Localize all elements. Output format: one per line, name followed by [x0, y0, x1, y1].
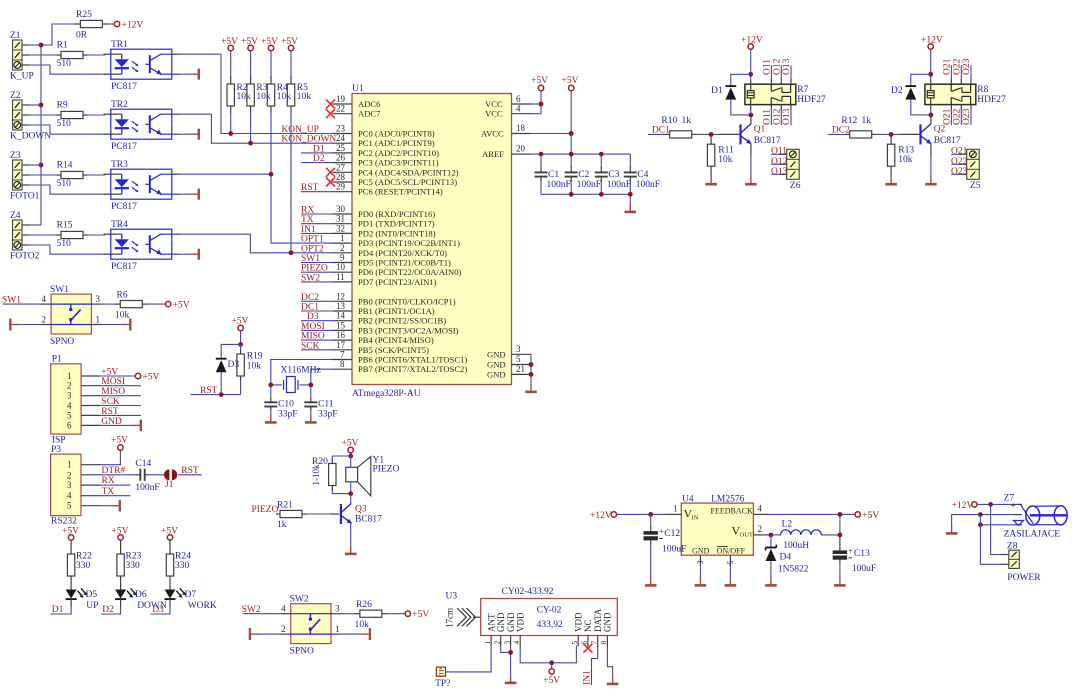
pin 17 PB5 net SCK [301, 340, 429, 355]
resistor R3 [247, 51, 254, 144]
svg-text:0R: 0R [76, 31, 88, 41]
wire R15 to TR4 [87, 233, 111, 236]
wire P3 pin3 RX [81, 476, 131, 486]
svg-text:K_DOWN: K_DOWN [10, 132, 51, 142]
wire C3 drop [600, 154, 602, 168]
svg-text:R14: R14 [57, 161, 73, 171]
node relay1 bottom [749, 113, 754, 118]
svg-text:OPT2: OPT2 [301, 244, 324, 254]
pin 7 PB6 [333, 350, 468, 365]
pin 1 PD3 net OPT1 [301, 233, 460, 248]
node relay2 bottom [929, 113, 934, 118]
svg-text:BC817: BC817 [355, 515, 382, 525]
svg-text:O12: O12 [771, 157, 788, 167]
svg-text:O11: O11 [763, 109, 773, 125]
svg-text:+5V: +5V [101, 368, 118, 378]
net KON_DOWN [281, 135, 336, 145]
+5V terminal R26 [405, 610, 429, 620]
svg-text:X116MHz: X116MHz [281, 366, 321, 376]
svg-text:Z3: Z3 [10, 151, 21, 161]
resistor R13 [887, 134, 914, 177]
svg-text:3: 3 [696, 561, 705, 565]
svg-text:510: 510 [57, 59, 72, 69]
LED column D7 [151, 527, 217, 616]
capacitor C12 [644, 514, 665, 578]
svg-text:RST: RST [181, 466, 199, 476]
wire Z7 pin2 to gnd [952, 512, 1014, 526]
svg-text:330: 330 [76, 561, 91, 571]
svg-text:O11: O11 [763, 59, 773, 75]
svg-text:2: 2 [493, 641, 502, 645]
svg-text:OPT1: OPT1 [301, 235, 324, 245]
pin 19 ADC6 [326, 94, 381, 109]
op-amp U1 body [352, 84, 512, 399]
svg-text:R24: R24 [175, 552, 191, 562]
antenna [445, 608, 481, 628]
svg-text:PD5 (PCINT21/OC0B/T1): PD5 (PCINT21/OC0B/T1) [358, 258, 451, 268]
wire U3 pin8 gnd [607, 645, 612, 676]
net KON_UP [281, 125, 318, 135]
svg-text:9: 9 [340, 253, 345, 263]
wire R1 to TR1 [87, 53, 111, 56]
svg-text:D3: D3 [228, 360, 240, 370]
svg-text:11: 11 [336, 272, 345, 282]
wire U3 vdd pins [520, 645, 576, 665]
node relay2 top [928, 72, 933, 77]
wire P1 pin1 +5V [81, 368, 135, 378]
svg-text:ADC6: ADC6 [358, 99, 381, 109]
svg-text:1: 1 [335, 624, 340, 634]
pin 5 GND [487, 354, 531, 370]
svg-text:R26: R26 [356, 600, 372, 610]
node L2 out [838, 512, 843, 537]
svg-text:3: 3 [67, 391, 72, 401]
svg-text:C2: C2 [578, 170, 589, 180]
ground Q2 [925, 176, 937, 184]
svg-text:RX: RX [102, 476, 115, 486]
svg-text:15: 15 [336, 320, 346, 330]
svg-text:PB3 (PCINT3/OC2A/MOSI): PB3 (PCINT3/OC2A/MOSI) [358, 325, 459, 335]
svg-text:TR1: TR1 [111, 40, 128, 50]
svg-text:D4: D4 [780, 553, 792, 563]
node piezo bottom [348, 491, 353, 496]
svg-text:SPNO: SPNO [50, 337, 74, 347]
svg-text:O22: O22 [952, 108, 962, 125]
svg-text:4: 4 [67, 401, 72, 411]
ground U1 [525, 384, 537, 392]
svg-text:R8: R8 [977, 85, 988, 95]
svg-text:25: 25 [336, 143, 346, 153]
svg-text:R13: R13 [898, 146, 914, 156]
svg-text:PB6 (PCINT6/XTAL1/TOSC1): PB6 (PCINT6/XTAL1/TOSC1) [358, 355, 467, 365]
svg-text:FOTO1: FOTO1 [10, 192, 40, 202]
svg-text:GND: GND [487, 369, 506, 379]
svg-text:HDF27: HDF27 [977, 95, 1006, 105]
ground C12 [645, 578, 657, 586]
pin 2 PD4 net OPT2 [301, 243, 447, 258]
wire P1 pin3 MISO [81, 387, 141, 397]
relay1 bottom contact wires [763, 105, 793, 125]
svg-text:O12: O12 [772, 108, 782, 125]
svg-text:PD7 (PCINT23/AIN1): PD7 (PCINT23/AIN1) [358, 277, 437, 287]
pin 16 PB4 net MISO [301, 330, 434, 345]
svg-text:SCK: SCK [101, 397, 120, 407]
ground C11 [305, 415, 317, 423]
svg-text:PC2 (ADC2/PCINT10): PC2 (ADC2/PCINT10) [358, 148, 439, 158]
ground C13 [834, 578, 846, 586]
svg-text:SW1: SW1 [50, 285, 69, 295]
+5V terminal P3 [111, 436, 128, 451]
resistor R12 [841, 116, 919, 138]
wire P1 pin2 MOSI [81, 377, 141, 387]
node OPT2 junction [289, 250, 294, 255]
relay2 bottom contact wires [943, 105, 973, 125]
wire R9 to TR2 [87, 113, 111, 116]
ground Q1 [745, 176, 757, 184]
svg-text:ZASILAJACE: ZASILAJACE [1004, 530, 1061, 540]
svg-text:433,92: 433,92 [537, 620, 563, 630]
svg-text:1: 1 [67, 460, 72, 470]
svg-text:O13: O13 [782, 108, 792, 125]
svg-text:28: 28 [336, 172, 346, 182]
svg-text:O21: O21 [951, 147, 968, 157]
+5V terminal P1 [135, 373, 159, 383]
svg-text:R7: R7 [797, 85, 808, 95]
svg-text:PIEZO: PIEZO [373, 465, 400, 475]
svg-text:R23: R23 [126, 552, 142, 562]
wire P1 pin4 SCK [81, 397, 141, 407]
pin 23 PC0 [336, 124, 435, 139]
resistor R4 [267, 51, 274, 113]
svg-text:3: 3 [516, 344, 521, 354]
svg-text:O21: O21 [943, 108, 953, 125]
svg-text:33pF: 33pF [278, 410, 298, 420]
wire cap bottom rail [541, 192, 633, 205]
svg-text:SW2: SW2 [242, 605, 261, 615]
svg-text:O23: O23 [962, 108, 972, 125]
resistor R14 [56, 161, 88, 190]
svg-text:O22: O22 [951, 157, 968, 167]
+5V terminal piezo [342, 439, 359, 457]
svg-text:PC817: PC817 [111, 202, 137, 212]
svg-text:19: 19 [336, 94, 346, 104]
pin 10 PD6 net PIEZO [301, 262, 462, 277]
svg-text:510: 510 [57, 239, 72, 249]
pin1 VIN stub [666, 504, 681, 515]
svg-text:P3: P3 [51, 445, 61, 455]
svg-text:PD2 (INT0/PCINT18): PD2 (INT0/PCINT18) [358, 228, 436, 238]
jumper J1 [148, 466, 202, 490]
test point TP? [435, 667, 450, 689]
ground SW2 right [341, 628, 370, 640]
svg-text:POWER: POWER [1007, 573, 1041, 583]
svg-text:FOTO2: FOTO2 [10, 252, 40, 262]
wire Z2 pin3 to TR2 cathode [29, 125, 111, 134]
svg-text:O13: O13 [782, 58, 792, 75]
capacitor C1 [535, 167, 571, 194]
svg-text:O22: O22 [952, 58, 962, 75]
wire C1 drop [540, 154, 542, 168]
svg-text:J1: J1 [165, 480, 174, 490]
svg-text:BC817: BC817 [934, 136, 961, 146]
crystal X1 16MHz [268, 366, 320, 393]
pin 13 PB1 net DC1 [301, 301, 435, 316]
pin 4 VCC [485, 104, 541, 119]
pin4 FEEDBACK wire [753, 504, 855, 515]
svg-text:SW2: SW2 [301, 273, 320, 283]
svg-text:GND: GND [101, 417, 122, 427]
svg-text:VCC: VCC [485, 99, 503, 109]
svg-text:IN: IN [692, 515, 699, 522]
svg-text:Z4: Z4 [10, 211, 21, 221]
connector Z5 [951, 147, 981, 191]
resistor R20 [311, 456, 351, 494]
svg-text:PD6 (PCINT22/OC0A/AIN0): PD6 (PCINT22/OC0A/AIN0) [358, 267, 462, 277]
capacitor C13 [833, 536, 876, 579]
svg-text:U4: U4 [682, 495, 694, 505]
svg-text:3: 3 [335, 604, 340, 614]
ground Q3 [345, 546, 357, 554]
ground R13 [885, 176, 897, 184]
ground Z7 [946, 526, 958, 534]
+5V terminal R4 [261, 37, 278, 51]
U3 pin stubs [483, 636, 608, 647]
ground U3 [505, 675, 517, 683]
+5V terminal R2 [221, 37, 238, 51]
svg-text:+5V: +5V [531, 76, 548, 86]
wire U3 pin2 gnd jog [501, 645, 511, 652]
svg-text:2: 2 [67, 470, 72, 480]
svg-text:10k: 10k [256, 92, 271, 102]
svg-text:1N5822: 1N5822 [778, 565, 809, 575]
net DC2 wire [828, 126, 850, 136]
svg-text:23: 23 [336, 124, 346, 134]
svg-text:PC0 (ADC0/PCINT8): PC0 (ADC0/PCINT8) [358, 129, 435, 139]
pin3 GND stub [696, 555, 705, 578]
svg-text:1: 1 [673, 504, 678, 514]
wire Z7 pin3 [978, 522, 1014, 527]
svg-text:21: 21 [516, 364, 525, 374]
svg-text:1: 1 [67, 371, 72, 381]
capacitor C2 [565, 167, 601, 194]
svg-text:PB4 (PCINT4/MISO): PB4 (PCINT4/MISO) [358, 335, 434, 345]
svg-text:29: 29 [336, 182, 346, 192]
svg-text:ANT: ANT [486, 613, 496, 632]
svg-text:LM2576: LM2576 [711, 495, 745, 505]
svg-text:7: 7 [590, 641, 599, 645]
svg-text:D3: D3 [152, 605, 164, 615]
svg-text:PB5 (SCK/PCINT5): PB5 (SCK/PCINT5) [358, 345, 429, 355]
svg-text:4: 4 [281, 604, 286, 614]
transistor Q2 [921, 115, 961, 177]
svg-text:+5V: +5V [543, 676, 560, 686]
svg-text:10k: 10k [277, 92, 292, 102]
svg-text:UP: UP [86, 601, 98, 611]
svg-text:2: 2 [67, 381, 72, 391]
svg-text:10k: 10k [297, 92, 312, 102]
connector Z6 [771, 147, 801, 191]
svg-text:+5V: +5V [173, 301, 190, 311]
connector Z8 [1001, 542, 1041, 584]
wire P3 pin5 gnd [81, 500, 120, 512]
node KON_DOWN junction [248, 141, 253, 146]
ground C10 [265, 415, 277, 423]
svg-text:31: 31 [336, 214, 345, 224]
svg-text:C1: C1 [548, 170, 559, 180]
svg-text:SPNO: SPNO [290, 647, 314, 657]
svg-text:SW1: SW1 [2, 295, 21, 305]
svg-text:C10: C10 [278, 400, 294, 410]
wire Z2 pin2 to R9 [29, 114, 58, 116]
inductor L2 [781, 516, 840, 551]
relay2 top contact wires [943, 58, 973, 84]
wire P3 pin2 DTR# [81, 466, 137, 476]
diode D1 [711, 74, 751, 115]
svg-text:Z2: Z2 [10, 91, 21, 101]
svg-text:10k: 10k [237, 92, 252, 102]
pin 20 AREF [482, 144, 630, 168]
svg-text:VCC: VCC [485, 109, 503, 119]
svg-text:D1: D1 [52, 605, 64, 615]
svg-text:10k: 10k [247, 362, 262, 372]
svg-text:1: 1 [483, 641, 492, 645]
diode D3 [216, 344, 241, 394]
svg-text:D6: D6 [135, 590, 147, 600]
svg-text:U1: U1 [352, 84, 364, 94]
diode D4 1N5822 [766, 535, 809, 578]
svg-text:O11: O11 [771, 147, 787, 157]
svg-text:1k: 1k [862, 116, 872, 126]
svg-text:PB0 (PCINT0/CLKO/ICP1): PB0 (PCINT0/CLKO/ICP1) [358, 296, 456, 306]
pin 6 VCC [485, 94, 541, 109]
diode D2 [891, 74, 931, 115]
svg-text:AVCC: AVCC [481, 129, 504, 139]
svg-text:DATA: DATA [593, 608, 603, 632]
net SW1 label [2, 295, 21, 305]
svg-text:ADC7: ADC7 [358, 109, 381, 119]
pin 30 PD0 net RX [301, 204, 435, 219]
svg-text:P1: P1 [52, 355, 62, 365]
svg-text:22: 22 [336, 104, 345, 114]
capacitor C4 [624, 167, 660, 194]
resistor R19 [237, 344, 263, 394]
svg-text:D2: D2 [313, 154, 325, 164]
svg-text:16: 16 [336, 330, 346, 340]
pin 18 AVCC [481, 123, 574, 139]
wire GND riser [529, 354, 534, 385]
wire TR2 collector KON_DOWN [172, 114, 352, 143]
+5V terminal RST pullup [232, 317, 249, 345]
svg-text:L2: L2 [782, 520, 793, 530]
svg-text:10: 10 [336, 262, 346, 272]
svg-text:CY02-433.92: CY02-433.92 [502, 587, 554, 597]
connector Z2 [10, 91, 51, 142]
svg-text:30: 30 [336, 204, 346, 214]
svg-text:D1: D1 [711, 86, 723, 96]
svg-text:R21: R21 [277, 501, 293, 511]
svg-text:R15: R15 [57, 221, 73, 231]
ground U3 pin8 [607, 676, 619, 684]
svg-text:KON_UP: KON_UP [281, 125, 318, 135]
node bus junctions [39, 43, 44, 168]
svg-text:5: 5 [516, 354, 521, 364]
wire U3 pin3 to gnd [508, 645, 513, 675]
svg-text:8: 8 [599, 641, 608, 645]
svg-text:+5V: +5V [143, 373, 160, 383]
svg-text:6: 6 [516, 94, 521, 104]
+5V terminal R6 [166, 301, 190, 311]
pin 14 PB2 net D3 [301, 311, 446, 326]
svg-text:+: + [1011, 501, 1016, 511]
pin 27 PC4 [326, 162, 459, 177]
svg-text:5: 5 [67, 501, 72, 511]
svg-text:+12V: +12V [590, 511, 612, 521]
svg-text:510: 510 [57, 119, 72, 129]
svg-text:VDD: VDD [573, 612, 583, 632]
svg-text:4: 4 [516, 104, 521, 114]
svg-text:3: 3 [96, 294, 101, 304]
svg-text:14: 14 [336, 311, 346, 321]
wire TR2 emitter to gnd [172, 129, 199, 140]
net RST wire [191, 386, 241, 397]
svg-text:R12: R12 [841, 116, 857, 126]
svg-text:C4: C4 [637, 170, 648, 180]
svg-text:MISO: MISO [301, 332, 325, 342]
+12V terminal relay2 [921, 36, 943, 81]
+12V terminal Z7 [952, 501, 1015, 511]
svg-text:D2: D2 [102, 605, 114, 615]
svg-text:Z5: Z5 [970, 181, 981, 191]
+5V terminal VCC [531, 76, 548, 106]
wire U3 pin7 DATA IN1 [583, 645, 598, 685]
svg-text:C3: C3 [608, 170, 619, 180]
resistor R25 [41, 10, 114, 45]
svg-text:PIEZO: PIEZO [252, 505, 279, 515]
resistor R6 [101, 291, 166, 321]
wire TR3 collector OPT1 [172, 173, 271, 175]
+5V terminal R5 [281, 37, 298, 51]
svg-text:IN1: IN1 [583, 670, 593, 685]
svg-text:1-10k: 1-10k [311, 464, 321, 485]
svg-text:RST: RST [101, 407, 119, 417]
svg-text:100nF: 100nF [135, 483, 159, 493]
barrel jack Z7 [1004, 494, 1068, 540]
resistor R4 value label [277, 83, 292, 102]
node RST top junction [238, 342, 243, 347]
svg-text:PB7 (PCINT7/XTAL2/TOSC2): PB7 (PCINT7/XTAL2/TOSC2) [358, 364, 467, 374]
svg-text:SCK: SCK [301, 341, 320, 351]
svg-text:R9: R9 [57, 101, 68, 111]
svg-text:100nF: 100nF [636, 180, 660, 190]
node Z7 pin1 [988, 502, 993, 507]
svg-text:NC: NC [583, 619, 593, 632]
svg-text:GND: GND [487, 349, 506, 359]
connector Z1 [10, 31, 34, 82]
net DC1 wire [648, 126, 670, 136]
svg-text:+5V: +5V [862, 511, 879, 521]
relay1 top contact wires [763, 58, 793, 84]
svg-text:2: 2 [281, 624, 286, 634]
connector Z3 [10, 151, 40, 202]
wire R4 to OPT1 pin [271, 112, 352, 243]
connector P1 [51, 355, 81, 446]
svg-text:10k: 10k [718, 155, 733, 165]
wire P3 pin4 TX [81, 487, 131, 497]
switch SW1 [3, 285, 102, 347]
svg-text:4: 4 [512, 641, 521, 645]
pin 21 GND [487, 364, 531, 380]
svg-text:ON/OFF: ON/OFF [717, 547, 746, 556]
